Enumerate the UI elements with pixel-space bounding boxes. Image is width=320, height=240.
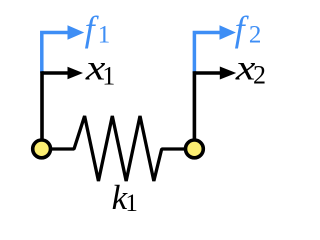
svg-text:1: 1 xyxy=(125,190,137,217)
wire: right black displacement arrow shaft xyxy=(194,71,221,75)
wire: left blue force arrow shaft (L-shape) xyxy=(42,33,69,74)
wire: right vertical to node xyxy=(193,71,197,141)
node 1 (left terminal) xyxy=(33,140,51,158)
wire: right blue force arrow shaft (L-shape) xyxy=(194,33,221,74)
wire: left black displacement arrow shaft xyxy=(42,71,69,75)
svg-text:1: 1 xyxy=(98,21,111,48)
arrowhead x2 xyxy=(220,67,236,80)
arrowhead f1 xyxy=(68,25,85,39)
spring k1 xyxy=(51,116,186,181)
svg-text:2: 2 xyxy=(253,61,266,90)
label x1 xyxy=(85,47,106,87)
label x2 xyxy=(235,47,256,87)
wire: left vertical to node xyxy=(40,71,44,141)
arrowhead f2 xyxy=(220,25,236,39)
arrowhead x1 xyxy=(68,67,84,80)
svg-text:2: 2 xyxy=(249,21,262,48)
node 2 (right terminal) xyxy=(186,140,204,158)
svg-text:1: 1 xyxy=(102,61,115,90)
